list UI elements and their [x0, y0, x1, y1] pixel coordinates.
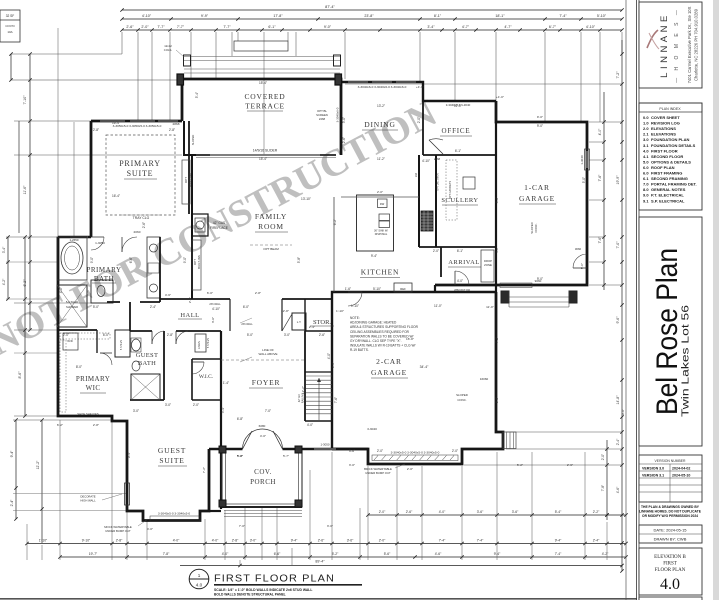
svg-text:Bel Rose Plan: Bel Rose Plan	[651, 248, 684, 415]
svg-text:2'-4": 2'-4"	[593, 539, 600, 543]
svg-text:1'-10": 1'-10"	[336, 309, 344, 313]
svg-text:9'-4": 9'-4"	[371, 254, 377, 258]
svg-text:FOYER: FOYER	[252, 378, 281, 387]
svg-text:8'-0": 8'-0"	[495, 197, 499, 203]
svg-text:2.1: 2.1	[643, 132, 649, 137]
svg-text:OR MODIFY W/O PERMISSION 2024: OR MODIFY W/O PERMISSION 2024	[642, 514, 698, 518]
svg-text:ZONE: ZONE	[484, 263, 492, 267]
svg-text:2468: 2468	[434, 157, 441, 161]
svg-text:SUITE: SUITE	[159, 456, 184, 465]
svg-text:2'-0": 2'-0"	[407, 467, 413, 471]
svg-text:SUITE: SUITE	[127, 169, 154, 178]
svg-text:1-3050: 1-3050	[95, 241, 105, 245]
svg-text:4'-6": 4'-6"	[435, 552, 442, 556]
svg-text:5-0 TILED: 5-0 TILED	[66, 300, 78, 304]
svg-text:CEILING ASSEMBLIES REQUIRED FO: CEILING ASSEMBLIES REQUIRED FOR	[350, 330, 410, 334]
svg-text:SHOWER: SHOWER	[66, 305, 78, 309]
svg-text:6'-6": 6'-6"	[274, 552, 281, 556]
svg-text:2'-4": 2'-4"	[616, 438, 620, 445]
svg-text:5'-2": 5'-2"	[332, 552, 339, 556]
svg-text:W.I.C.: W.I.C.	[199, 374, 214, 380]
svg-text:3-3040x6-0: 3-3040x6-0	[336, 107, 340, 122]
svg-text:OFFICE: OFFICE	[442, 127, 471, 135]
svg-text:7'-10": 7'-10"	[23, 95, 27, 105]
svg-text:FLOOR PLAN: FLOOR PLAN	[655, 568, 686, 573]
svg-text:7'-8": 7'-8"	[601, 485, 605, 491]
svg-text:2'-8": 2'-8"	[116, 539, 123, 543]
svg-text:Charlotte, NC 28226 PH 704.9: Charlotte, NC 28226 PH 704.910.0289	[694, 8, 699, 81]
svg-text:Twin Lakes Lot 56: Twin Lakes Lot 56	[681, 304, 692, 417]
svg-text:FIRST FLOOR: FIRST FLOOR	[651, 148, 678, 153]
svg-text:5'-7": 5'-7"	[283, 454, 289, 458]
svg-text:34'-4": 34'-4"	[420, 365, 429, 369]
svg-text:6'-2": 6'-2"	[57, 423, 63, 427]
svg-text:4'-0": 4'-0"	[173, 539, 180, 543]
svg-text:3'-0": 3'-0"	[165, 403, 171, 407]
svg-text:2'-4": 2'-4"	[309, 325, 315, 329]
svg-text:15'-4": 15'-4"	[259, 81, 267, 85]
svg-text:19'-7": 19'-7"	[89, 552, 98, 556]
svg-text:2'-6": 2'-6"	[406, 510, 413, 514]
svg-text:4'-0": 4'-0"	[307, 423, 313, 427]
svg-text:ROOM: ROOM	[258, 222, 284, 231]
svg-text:6'-1": 6'-1"	[455, 149, 461, 153]
svg-text:1.0: 1.0	[643, 121, 649, 126]
svg-text:7401 Carmel Executive Park Dr.: 7401 Carmel Executive Park Dr., Ste 10X	[687, 6, 692, 83]
svg-text:PRIMARY: PRIMARY	[76, 375, 110, 383]
svg-text:VERSION NUMBER: VERSION NUMBER	[655, 459, 686, 463]
svg-text:3'-0": 3'-0"	[284, 333, 290, 337]
svg-text:FIREPLACE: FIREPLACE	[210, 226, 228, 230]
svg-text:REVISION LOG: REVISION LOG	[651, 121, 680, 126]
svg-text:9'-0": 9'-0"	[537, 124, 543, 128]
svg-text:1-3050: 1-3050	[320, 443, 329, 447]
svg-text:5'-6": 5'-6"	[384, 552, 391, 556]
svg-text:3-3040: 3-3040	[367, 427, 377, 431]
svg-text:SECOND FRAMING: SECOND FRAMING	[651, 176, 688, 181]
svg-text:FIRST FRAMING: FIRST FRAMING	[651, 171, 682, 176]
svg-text:VERSION 3.1: VERSION 3.1	[642, 474, 664, 478]
svg-text:ELEVATION B: ELEVATION B	[654, 555, 686, 560]
svg-text:9'-4": 9'-4"	[555, 539, 562, 543]
svg-text:COV.: COV.	[254, 468, 272, 476]
svg-text:2'-0": 2'-0"	[141, 25, 149, 29]
svg-text:5 SHLVS: 5 SHLVS	[207, 338, 210, 348]
svg-text:3'-6": 3'-6"	[347, 539, 354, 543]
svg-text:87'-4": 87'-4"	[325, 5, 335, 9]
svg-text:FOUNDATION DETAILS: FOUNDATION DETAILS	[651, 143, 696, 148]
svg-text:3'-4": 3'-4"	[2, 246, 6, 253]
svg-text:1'-4": 1'-4"	[223, 381, 229, 385]
svg-text:3.1: 3.1	[643, 143, 649, 148]
svg-text:2'-0": 2'-0"	[188, 297, 192, 303]
svg-text:4.1: 4.1	[643, 154, 649, 159]
svg-text:11'-0": 11'-0"	[454, 104, 462, 108]
svg-text:3'-0": 3'-0"	[342, 117, 346, 123]
svg-text:7'-7": 7'-7"	[223, 25, 231, 29]
svg-text:7'-7": 7'-7"	[177, 25, 185, 29]
svg-text:TERRACE: TERRACE	[245, 102, 285, 111]
svg-text:15'-4": 15'-4"	[259, 157, 267, 161]
svg-text:7'-4": 7'-4"	[477, 539, 484, 543]
svg-text:7'-6": 7'-6"	[334, 397, 338, 403]
svg-text:42" HC: 42" HC	[297, 394, 301, 402]
svg-text:OPT CABINETS: OPT CABINETS	[449, 181, 452, 200]
svg-text:BOLD WALLS DENOTE STRUCTURAL P: BOLD WALLS DENOTE STRUCTURAL PANEL	[214, 592, 286, 596]
svg-text:6'-1": 6'-1"	[457, 249, 463, 253]
svg-text:DRAWN BY: CWB: DRAWN BY: CWB	[654, 537, 687, 542]
svg-text:3'-6": 3'-6"	[349, 449, 355, 453]
svg-text:ELEVATIONS: ELEVATIONS	[651, 132, 676, 137]
svg-text:0.0: 0.0	[643, 115, 649, 120]
svg-text:2.0: 2.0	[643, 126, 649, 131]
svg-text:6'-2": 6'-2"	[333, 219, 337, 225]
svg-text:HALL: HALL	[180, 312, 199, 319]
svg-text:2'-6": 2'-6"	[319, 333, 325, 337]
svg-text:3'-0": 3'-0"	[349, 463, 355, 467]
svg-text:ELEVATIONS: ELEVATIONS	[651, 126, 676, 131]
svg-text:6'-0": 6'-0"	[103, 333, 109, 337]
svg-text:7'-4": 7'-4"	[439, 539, 446, 543]
svg-text:STOR.: STOR.	[313, 319, 331, 326]
svg-text:42" GAS: 42" GAS	[213, 221, 225, 225]
svg-text:SCULLERY: SCULLERY	[441, 197, 478, 204]
svg-text:4'-0": 4'-0"	[327, 353, 331, 359]
svg-text:9'-4": 9'-4"	[494, 552, 501, 556]
svg-text:— H O M E S —: — H O M E S —	[674, 7, 680, 83]
svg-text:7'-8": 7'-8"	[163, 552, 170, 556]
svg-text:REF: REF	[400, 287, 406, 291]
svg-text:GARAGE: GARAGE	[519, 194, 555, 203]
svg-text:16'-4": 16'-4"	[112, 121, 120, 125]
svg-text:7'-6": 7'-6"	[598, 174, 602, 182]
svg-text:2'-2": 2'-2"	[593, 510, 600, 514]
svg-text:W/D: W/D	[67, 339, 72, 343]
svg-text:2x6: 2x6	[415, 172, 418, 177]
svg-text:7'-2": 7'-2"	[495, 337, 499, 343]
svg-text:2'-8": 2'-8"	[255, 291, 261, 295]
svg-text:ROOF PLAN: ROOF PLAN	[651, 165, 675, 170]
svg-text:5'-8": 5'-8"	[237, 454, 243, 458]
svg-text:PRIMARY: PRIMARY	[119, 159, 161, 168]
svg-text:2'-6": 2'-6"	[126, 25, 134, 29]
svg-text:SEPARATION WALLS TO BE COVERED: SEPARATION WALLS TO BE COVERED W/	[350, 334, 414, 338]
svg-text:2868: 2868	[173, 122, 180, 126]
svg-text:1'-10": 1'-10"	[351, 304, 359, 308]
svg-text:7'-2": 7'-2"	[202, 467, 206, 473]
svg-text:1: 1	[198, 573, 201, 578]
svg-text:32 SF: 32 SF	[6, 14, 15, 18]
svg-text:NOTE:: NOTE:	[350, 316, 360, 320]
svg-text:BUILT-INS: BUILT-INS	[197, 255, 201, 269]
svg-text:2024-04-02: 2024-04-02	[672, 467, 690, 471]
svg-text:8'-8": 8'-8"	[495, 397, 499, 403]
svg-text:+1'-0": +1'-0"	[496, 95, 504, 99]
svg-text:4'-10": 4'-10"	[142, 14, 152, 18]
svg-text:3-3040x6-0 3-3040x6-0 3-3040: 3-3040x6-0 3-3040x6-0 3-3040x6-0	[358, 85, 407, 89]
svg-text:2'-0": 2'-0"	[379, 510, 386, 514]
svg-text:4'-10": 4'-10"	[586, 25, 596, 29]
svg-text:4.0: 4.0	[196, 583, 203, 588]
svg-text:SHOE SHELVES: SHOE SHELVES	[77, 412, 99, 416]
svg-text:11'-0": 11'-0"	[434, 304, 442, 308]
svg-text:2'-0": 2'-0"	[417, 117, 421, 123]
svg-text:DINING: DINING	[364, 120, 395, 129]
svg-text:P.T. ELECTRICAL: P.T. ELECTRICAL	[651, 193, 684, 198]
svg-text:16060: 16060	[480, 377, 489, 381]
svg-text:9'-4": 9'-4"	[10, 450, 14, 458]
svg-text:7'-2": 7'-2"	[616, 71, 620, 79]
svg-text:4'-0": 4'-0"	[495, 247, 499, 253]
svg-text:COV'D: COV'D	[5, 24, 15, 28]
svg-text:7'-4": 7'-4"	[555, 552, 562, 556]
svg-text:PLAN INDEX: PLAN INDEX	[659, 107, 681, 111]
svg-text:COLS.: COLS.	[164, 48, 173, 52]
svg-text:18'-1": 18'-1"	[495, 14, 505, 18]
svg-text:9.0: 9.0	[643, 193, 649, 198]
svg-text:5'-0": 5'-0"	[580, 263, 584, 269]
svg-text:2'-6": 2'-6"	[567, 463, 573, 467]
svg-text:COVER SHEET: COVER SHEET	[651, 115, 680, 120]
svg-text:CONC.: CONC.	[534, 223, 538, 232]
svg-text:11'-2": 11'-2"	[377, 157, 385, 161]
svg-text:AREA & STRUCTURES SUPPORTING F: AREA & STRUCTURES SUPPORTING FLOOR	[350, 325, 419, 329]
svg-text:4'-0": 4'-0"	[260, 434, 266, 438]
svg-text:4'-6": 4'-6"	[616, 486, 620, 493]
svg-text:2468: 2468	[319, 117, 326, 121]
svg-text:13'-2": 13'-2"	[377, 104, 385, 108]
svg-text:ADJOINING GARAGE: HEATED: ADJOINING GARAGE: HEATED	[350, 321, 397, 325]
svg-text:S.P. ELECTRICAL: S.P. ELECTRICAL	[651, 198, 685, 203]
svg-text:2'-8": 2'-8"	[169, 128, 175, 132]
svg-text:4'-2": 4'-2"	[59, 287, 63, 293]
svg-text:4'-10": 4'-10"	[422, 159, 430, 163]
svg-text:4'-0": 4'-0"	[457, 279, 463, 283]
svg-text:7'-4": 7'-4"	[559, 14, 567, 18]
svg-text:4'-0": 4'-0"	[439, 510, 446, 514]
svg-text:5'-10": 5'-10"	[373, 287, 381, 291]
svg-text:3'-0": 3'-0"	[133, 409, 139, 413]
svg-text:5'-4": 5'-4"	[195, 92, 199, 98]
svg-text:1-3040: 1-3040	[580, 155, 584, 165]
svg-text:2024-05-10: 2024-05-10	[672, 474, 690, 478]
svg-text:2-CAR: 2-CAR	[376, 357, 402, 366]
svg-text:3'-4": 3'-4"	[221, 407, 225, 413]
svg-text:LINEN: LINEN	[197, 341, 201, 349]
svg-text:OPT BEAM: OPT BEAM	[263, 247, 279, 251]
svg-text:5'-4": 5'-4"	[555, 510, 562, 514]
svg-text:GY DRYWALL. CLG SEP TYPE "X".: GY DRYWALL. CLG SEP TYPE "X".	[350, 339, 402, 343]
svg-text:2X6 WALL: 2X6 WALL	[241, 323, 253, 326]
svg-text:PORCH: PORCH	[250, 478, 276, 486]
svg-text:2'-8": 2'-8"	[93, 423, 99, 427]
svg-text:WIC: WIC	[86, 384, 101, 392]
svg-text:LINNANE HOMES. DO NOT DUPLICAT: LINNANE HOMES. DO NOT DUPLICATE	[639, 510, 702, 514]
svg-text:DW: DW	[380, 202, 385, 206]
svg-text:UNDER BUMP OUT: UNDER BUMP OUT	[365, 471, 391, 475]
svg-text:1'-10": 1'-10"	[39, 539, 48, 543]
svg-text:6'-7": 6'-7"	[549, 25, 557, 29]
svg-text:14/9/16 SLIDER: 14/9/16 SLIDER	[253, 149, 278, 153]
svg-text:3'-6": 3'-6"	[211, 317, 215, 323]
svg-text:10A: 10A	[7, 30, 12, 34]
svg-text:9'-0": 9'-0"	[324, 25, 332, 29]
svg-text:4'-2": 4'-2"	[2, 278, 6, 285]
svg-text:3.0: 3.0	[643, 137, 649, 142]
svg-text:6.0: 6.0	[643, 165, 649, 170]
svg-text:OPTIONS & DETAILS: OPTIONS & DETAILS	[651, 159, 691, 164]
svg-text:2'-0": 2'-0"	[377, 449, 383, 453]
svg-text:5'-8": 5'-8"	[297, 257, 301, 263]
svg-text:6'-1": 6'-1"	[268, 25, 276, 29]
svg-text:16'-4": 16'-4"	[112, 194, 120, 198]
svg-text:LINNANE: LINNANE	[659, 12, 670, 78]
svg-text:5'-0": 5'-0"	[582, 177, 586, 183]
svg-text:13'-10": 13'-10"	[301, 197, 311, 201]
svg-text:COVERED: COVERED	[244, 92, 285, 101]
svg-text:2'-4": 2'-4"	[150, 305, 156, 309]
svg-text:6080: 6080	[259, 424, 266, 428]
svg-text:2860 PKT DR: 2860 PKT DR	[454, 288, 470, 292]
svg-text:12'-2": 12'-2"	[301, 386, 305, 394]
svg-text:ARRIVAL: ARRIVAL	[448, 259, 480, 266]
svg-text:DISPOSAL: DISPOSAL	[375, 233, 388, 236]
svg-text:9'-0": 9'-0"	[537, 115, 543, 119]
svg-text:GUEST: GUEST	[136, 352, 158, 359]
svg-text:7'-7": 7'-7"	[157, 25, 165, 29]
svg-text:3'-0": 3'-0"	[250, 539, 257, 543]
svg-text:9'-0": 9'-0"	[537, 277, 543, 281]
svg-text:4'-10": 4'-10"	[212, 307, 220, 311]
svg-text:1-2650: 1-2650	[69, 238, 78, 242]
svg-text:4'-0": 4'-0"	[598, 128, 602, 136]
svg-text:9'-9": 9'-9"	[201, 14, 209, 18]
svg-text:2060: 2060	[134, 230, 141, 234]
svg-text:6'-0": 6'-0"	[243, 305, 249, 309]
svg-text:9'-10": 9'-10"	[82, 539, 91, 543]
svg-text:CONC.: CONC.	[457, 398, 467, 402]
svg-text:9'-0": 9'-0"	[183, 257, 187, 263]
svg-text:BATH: BATH	[94, 275, 114, 283]
svg-text:6.1: 6.1	[643, 176, 649, 181]
svg-text:GUEST: GUEST	[158, 446, 186, 455]
svg-text:WALL ABOVE: WALL ABOVE	[259, 352, 278, 356]
svg-text:6.0: 6.0	[643, 171, 649, 176]
svg-text:8'-6": 8'-6"	[57, 377, 61, 383]
svg-text:2'-0": 2'-0"	[193, 403, 199, 407]
svg-text:2'-8": 2'-8"	[93, 128, 99, 132]
svg-text:2'-6": 2'-6"	[318, 539, 325, 543]
svg-text:14'-8": 14'-8"	[616, 395, 620, 405]
svg-text:8'-6": 8'-6"	[18, 371, 22, 379]
svg-text:89'-4": 89'-4"	[315, 560, 325, 564]
svg-text:2'-0": 2'-0"	[452, 449, 458, 453]
svg-text:FAMILY: FAMILY	[255, 212, 287, 221]
svg-text:5.0: 5.0	[643, 159, 649, 164]
svg-text:4'-6": 4'-6"	[165, 293, 171, 297]
svg-text:GENERAL NOTES: GENERAL NOTES	[651, 187, 686, 192]
svg-text:8.0: 8.0	[643, 187, 649, 192]
svg-text:5'-0": 5'-0"	[93, 305, 99, 309]
svg-text:+1'-0": +1'-0"	[416, 85, 424, 89]
svg-text:3-3040x5-0 3-3040x5-0: 3-3040x5-0 3-3040x5-0	[158, 512, 190, 516]
svg-text:3'-6": 3'-6"	[477, 510, 484, 514]
svg-text:SLOPED: SLOPED	[456, 393, 468, 397]
svg-text:4'-7": 4'-7"	[462, 25, 470, 29]
svg-text:9'-4": 9'-4"	[291, 539, 298, 543]
svg-text:3'-6": 3'-6"	[512, 510, 519, 514]
svg-text:4'-0": 4'-0"	[222, 552, 229, 556]
svg-text:3060: 3060	[575, 247, 582, 251]
svg-text:9'-8": 9'-8"	[331, 362, 335, 368]
svg-text:4'-7": 4'-7"	[504, 25, 512, 29]
svg-text:OPT DBL OVEN: OPT DBL OVEN	[437, 173, 440, 191]
svg-text:17'-8": 17'-8"	[273, 14, 283, 18]
svg-text:7'-0": 7'-0"	[616, 241, 620, 249]
svg-text:12'-8": 12'-8"	[281, 309, 289, 313]
svg-text:2'-4": 2'-4"	[10, 499, 14, 507]
svg-text:12'-2": 12'-2"	[36, 460, 40, 469]
svg-text:PRIMARY: PRIMARY	[86, 266, 121, 274]
svg-text:R-19 BATTS.: R-19 BATTS.	[350, 348, 369, 352]
svg-text:BATH: BATH	[138, 360, 156, 367]
svg-text:2'-8": 2'-8"	[167, 333, 173, 337]
svg-text:2X6 WALL: 2X6 WALL	[209, 303, 221, 306]
svg-text:6'-8": 6'-8"	[237, 417, 243, 421]
svg-text:KITCHEN: KITCHEN	[361, 268, 400, 277]
svg-text:3'-0": 3'-0"	[327, 524, 333, 528]
svg-text:SECOND FLOOR: SECOND FLOOR	[651, 154, 683, 159]
svg-text:5 SHLVS: 5 SHLVS	[120, 340, 123, 350]
svg-text:2'-0": 2'-0"	[601, 454, 605, 460]
svg-text:2'-0": 2'-0"	[379, 539, 386, 543]
svg-text:5'-0": 5'-0"	[247, 333, 253, 337]
svg-text:5'-2": 5'-2"	[517, 463, 523, 467]
svg-text:4.0: 4.0	[660, 576, 680, 593]
svg-text:23'-8": 23'-8"	[364, 14, 374, 18]
svg-text:L.T.: L.T.	[297, 320, 302, 324]
svg-text:9'-6": 9'-6"	[621, 409, 625, 415]
svg-text:6'-0": 6'-0"	[207, 291, 213, 295]
svg-text:3-3040x5-0 3-3040x5-0 3-30: 3-3040x5-0 3-3040x5-0 3-3040x5-0	[391, 451, 440, 455]
svg-text:2'-6": 2'-6"	[142, 222, 146, 228]
svg-text:4'-2": 4'-2"	[602, 552, 609, 556]
svg-text:PORTAL FRAMING DET.: PORTAL FRAMING DET.	[651, 182, 697, 187]
svg-text:TRAY CLG: TRAY CLG	[133, 216, 150, 220]
svg-text:HIGH WALL: HIGH WALL	[80, 499, 96, 503]
svg-text:2'-8": 2'-8"	[232, 539, 239, 543]
svg-text:2'-6": 2'-6"	[342, 137, 346, 143]
svg-text:INSULATE WALLS W/ R-19 BATTS +: INSULATE WALLS W/ R-19 BATTS + CLG W/	[350, 344, 415, 348]
svg-text:FIRST: FIRST	[663, 562, 677, 567]
svg-text:9'-4": 9'-4"	[127, 452, 131, 458]
svg-text:GARAGE: GARAGE	[371, 368, 407, 377]
svg-text:SLOPED: SLOPED	[191, 135, 195, 146]
svg-text:2'-0": 2'-0"	[433, 249, 439, 253]
svg-text:FIRST FLOOR PLAN: FIRST FLOOR PLAN	[214, 574, 335, 585]
svg-text:19'-9": 19'-9"	[616, 175, 620, 185]
svg-text:11'-6": 11'-6"	[23, 185, 27, 194]
svg-text:4'-0": 4'-0"	[147, 527, 153, 531]
svg-text:2'-0": 2'-0"	[377, 190, 383, 194]
svg-text:9'-0": 9'-0"	[90, 257, 94, 263]
svg-text:6'-6": 6'-6"	[129, 257, 133, 263]
svg-text:9'-6": 9'-6"	[616, 316, 620, 324]
svg-text:THE PLAN & DRAWINGS OWNED BY: THE PLAN & DRAWINGS OWNED BY	[641, 505, 700, 509]
svg-text:7.0: 7.0	[643, 182, 649, 187]
svg-text:16'-8": 16'-8"	[406, 337, 414, 341]
svg-text:UNDER BUMP OUT: UNDER BUMP OUT	[105, 529, 131, 533]
